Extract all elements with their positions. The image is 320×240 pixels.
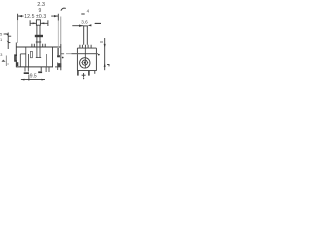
faint extension left x17.4 (17, 20, 19, 43)
long extension line x60.8 (60, 17, 62, 71)
body bottom line (77, 69, 97, 71)
small tick below right corner (94, 71, 96, 74)
right height dim: down arrow (104, 44, 106, 48)
left view body bottom line (16, 66, 53, 68)
body top line (77, 47, 96, 49)
svg-text:9.5: 9.5 (30, 73, 37, 79)
body right edge (95, 48, 97, 70)
right view right lead (88, 71, 90, 76)
svg-text:12.5 ±0.3: 12.5 ±0.3 (24, 14, 46, 20)
left lead foot (24, 72, 29, 74)
o-ring tick on shaft (36, 41, 41, 43)
dimension 2.3 tick right (41, 20, 48, 26)
dimension 2.3 tick left (30, 20, 36, 26)
left small dim tick (7, 63, 8, 65)
left height dim: tick y42.6 (8, 42, 10, 44)
right dim small text (100, 41, 103, 43)
right dim bottom mark (107, 64, 109, 66)
left lead below body (25, 67, 28, 72)
bottom tick near lug (55, 66, 61, 68)
left view body top line (16, 46, 61, 48)
inner rotor lines (20, 48, 28, 67)
left small dim vertical (5, 56, 7, 67)
center lead below body (40, 67, 42, 71)
screw flange / washer (35, 35, 43, 37)
left height dim: tick y36 (8, 35, 11, 37)
right view left lead (77, 71, 79, 76)
screw shaft (side view) (37, 25, 40, 47)
screw inside body (hidden) (36, 47, 41, 58)
center lead foot (38, 71, 42, 73)
dim 3.6 left arrow line (72, 25, 83, 27)
inner rotor top tick (20, 53, 26, 55)
right height dim: vertical line (104, 38, 106, 70)
left bent lead (C shape) (15, 55, 17, 61)
left view body left edge (15, 43, 17, 68)
svg-text:3.6: 3.6 (81, 19, 88, 24)
dim 3.6 right arrow line (95, 22, 101, 24)
inner small rect (30, 51, 32, 57)
middle circle (82, 60, 87, 65)
right height dim: up arrow (104, 63, 106, 67)
body left edge (76, 48, 78, 70)
svg-text:3: 3 (0, 53, 2, 57)
knurl collar bars (80, 45, 91, 48)
left height dim: vertical line (7, 33, 9, 50)
right height dim: top dash (95, 22, 101, 24)
left small dim arrow (2, 60, 6, 62)
right lug foot (57, 55, 60, 57)
left height dim: arrow upper (4, 33, 8, 35)
screw head (side view) (36, 20, 40, 25)
small arc mark near top gap (61, 8, 66, 11)
bottom dimension line (21, 79, 45, 81)
lead end dot (62, 57, 64, 59)
dimension line 12.5 left arrow (18, 14, 24, 20)
background (0, 0, 110, 84)
bottom dim tick (28, 75, 30, 81)
right lug of left view: vertical lead bar (57, 48, 59, 55)
bushing bars above body top (32, 44, 45, 47)
plus mark under body (82, 73, 86, 78)
seam line with side tabs (66, 53, 98, 55)
dimension line 12.5 right arrow (51, 14, 58, 21)
left view body right edge (52, 47, 54, 67)
left edge lower tab (16, 62, 18, 66)
extension line continuation x58.3 (57, 21, 59, 49)
svg-text:9: 9 (39, 8, 42, 14)
shaft sides (84, 26, 88, 45)
right tab dot (98, 54, 100, 56)
outer circle (80, 58, 90, 68)
center line through circle (84, 48, 86, 68)
slot ticks on middle circle (81, 62, 88, 64)
inner line right (45, 54, 47, 67)
shaft top cap (83, 25, 88, 27)
tick y53.8 (61, 53, 64, 55)
right lead below body (46, 67, 49, 72)
dash above shaft (81, 13, 84, 15)
lug lower dark patch (57, 63, 59, 71)
inner dot (84, 62, 86, 64)
